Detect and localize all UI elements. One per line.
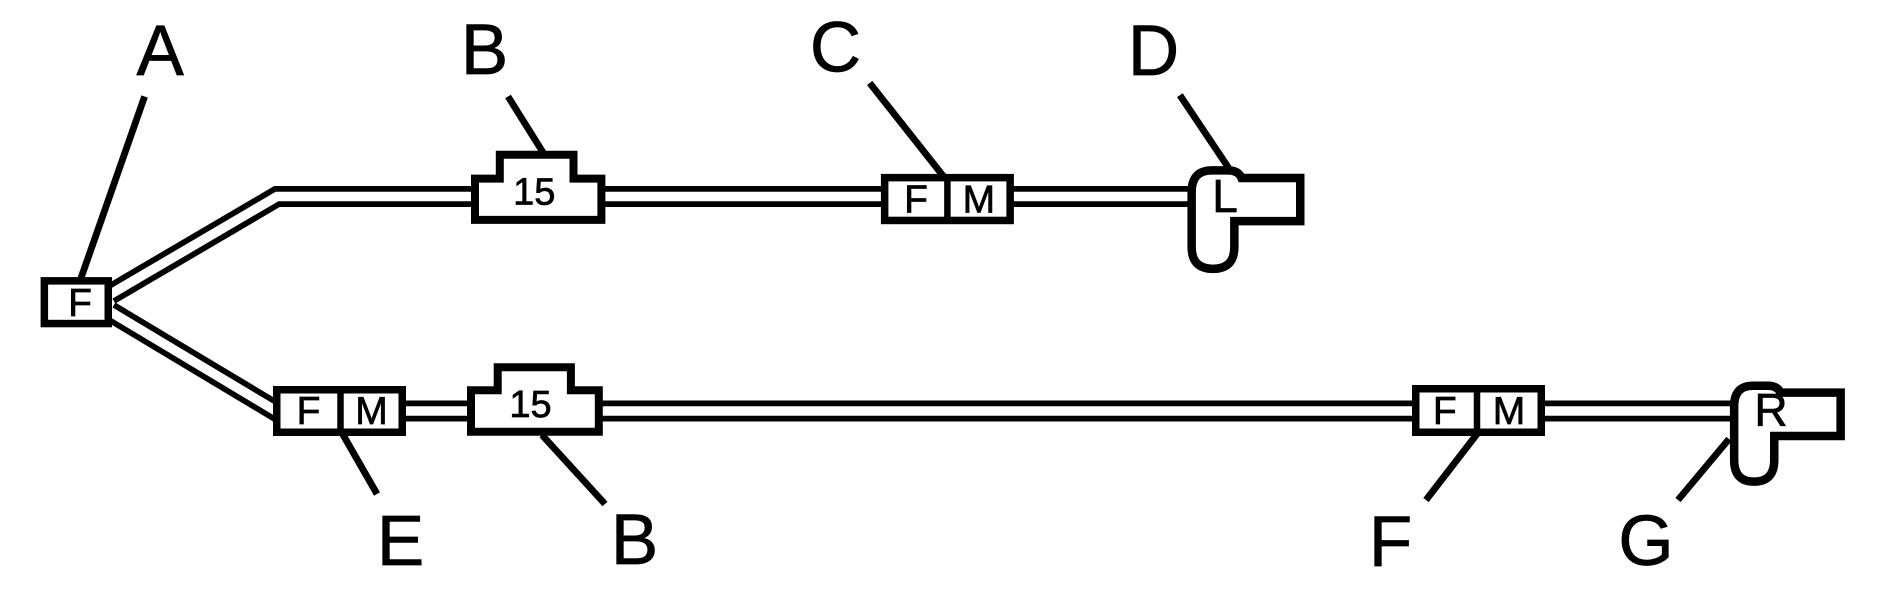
svg-text:B: B [461, 11, 508, 90]
svg-text:F: F [297, 390, 321, 433]
svg-text:M: M [1493, 390, 1526, 433]
svg-text:G: G [1618, 502, 1673, 581]
svg-text:M: M [963, 178, 996, 221]
svg-text:L: L [1212, 170, 1238, 222]
svg-text:D: D [1128, 12, 1179, 91]
svg-text:15: 15 [513, 172, 555, 214]
svg-text:M: M [355, 390, 388, 433]
svg-text:F: F [1369, 503, 1412, 582]
svg-text:F: F [904, 178, 928, 221]
svg-text:F: F [68, 282, 92, 325]
svg-text:F: F [1433, 390, 1457, 433]
svg-text:E: E [377, 502, 424, 581]
svg-text:C: C [810, 9, 861, 88]
svg-text:B: B [611, 501, 658, 580]
svg-text:15: 15 [509, 384, 551, 426]
svg-text:R: R [1754, 384, 1787, 436]
svg-text:A: A [137, 12, 185, 91]
